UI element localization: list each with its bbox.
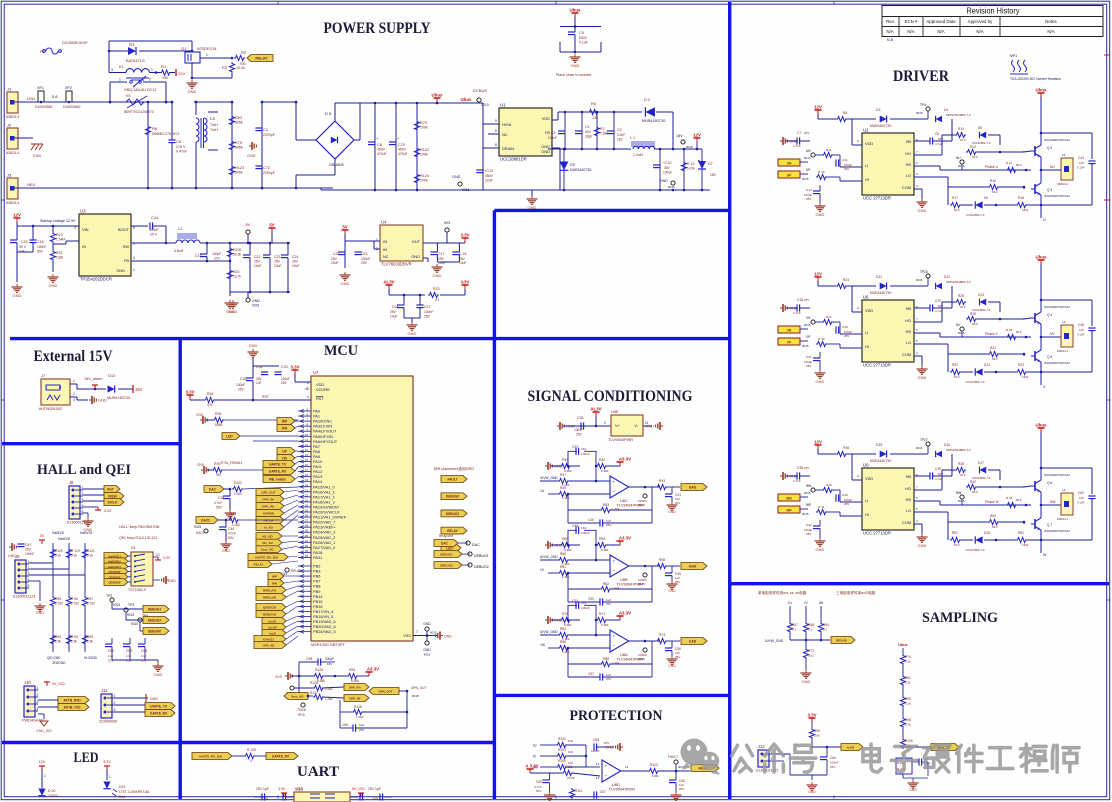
svg-text:GND: GND — [816, 379, 825, 384]
svg-text:SIGNAL CONDITIONING: SIGNAL CONDITIONING — [528, 388, 693, 405]
svg-text:160k: 160k — [1022, 208, 1029, 212]
svg-text:16V: 16V — [1079, 496, 1084, 500]
svg-text:C67: C67 — [600, 790, 606, 794]
svg-text:806k: 806k — [215, 423, 223, 427]
svg-text:15V: 15V — [135, 387, 143, 392]
svg-text:100: 100 — [568, 750, 573, 754]
svg-text:UARTE_TX: UARTE_TX — [150, 705, 168, 709]
svg-text:GND: GND — [918, 208, 927, 213]
svg-text:NC: NC — [383, 254, 389, 259]
svg-text:11: 11 — [305, 438, 308, 442]
svg-text:63824-4: 63824-4 — [6, 201, 19, 205]
svg-text:4: 4 — [37, 707, 39, 711]
svg-text:XF2: XF2 — [65, 86, 72, 90]
svg-text:R96: R96 — [814, 729, 820, 733]
svg-text:R78: R78 — [562, 612, 568, 616]
svg-text:100nF: 100nF — [581, 606, 590, 610]
svg-text:U4: U4 — [381, 220, 387, 225]
svg-text:7mH: 7mH — [210, 123, 218, 127]
svg-text:C29: C29 — [935, 299, 941, 303]
svg-text:100nF: 100nF — [37, 245, 46, 249]
svg-text:TLV9064IPWR: TLV9064IPWR — [608, 438, 633, 442]
svg-text:R62: R62 — [603, 582, 609, 586]
svg-text:1: 1 — [119, 78, 121, 82]
svg-text:C21: C21 — [361, 252, 367, 256]
svg-text:OPN_OUT: OPN_OUT — [379, 690, 393, 694]
svg-text:R68: R68 — [808, 623, 814, 627]
svg-text:DAC2: DAC2 — [201, 519, 210, 523]
svg-text:GND: GND — [408, 331, 417, 336]
svg-text:UVA_AD: UVA_AD — [263, 644, 275, 648]
svg-text:C50: C50 — [588, 597, 594, 601]
svg-text:450V: 450V — [377, 148, 386, 152]
svg-text:DHELd42: DHELd42 — [263, 596, 277, 600]
svg-text:0.1: 0.1 — [792, 628, 797, 632]
svg-text:WN: WN — [786, 497, 792, 501]
svg-text:R61: R61 — [560, 565, 566, 569]
svg-text:GND: GND — [116, 268, 125, 273]
svg-text:NW: NW — [956, 491, 961, 495]
svg-text:1: 1 — [114, 694, 116, 698]
svg-text:D12: D12 — [944, 275, 950, 279]
svg-text:100k: 100k — [652, 774, 659, 778]
svg-text:R27: R27 — [826, 315, 832, 319]
svg-text:J9: J9 — [15, 554, 20, 559]
svg-text:GND: GND — [36, 611, 45, 615]
svg-text:JEI2GND: JEI2GND — [52, 661, 66, 665]
svg-text:1N4148W-7-F: 1N4148W-7-F — [966, 380, 985, 384]
svg-text:C27: C27 — [424, 305, 430, 309]
svg-text:R SL_REMA1: R SL_REMA1 — [221, 461, 242, 465]
svg-text:R11: R11 — [826, 148, 832, 152]
svg-text:9015: 9015 — [298, 713, 305, 717]
svg-text:D 2: D 2 — [644, 97, 651, 102]
svg-text:63824-4: 63824-4 — [6, 115, 19, 119]
svg-text:NT0DP,215: NT0DP,215 — [197, 47, 216, 51]
svg-text:R34: R34 — [207, 392, 213, 396]
svg-text:R67: R67 — [792, 623, 798, 627]
svg-text:60.0: 60.0 — [954, 208, 960, 212]
svg-text:ILAD: ILAD — [847, 746, 855, 750]
svg-text:C17: C17 — [438, 252, 444, 256]
svg-text:SW: SW — [123, 244, 130, 249]
svg-text:450V: 450V — [485, 174, 494, 178]
svg-text:R17: R17 — [952, 196, 958, 200]
svg-text:L 1: L 1 — [630, 136, 635, 140]
svg-text:VDD: VDD — [865, 476, 873, 481]
svg-text:R66: R66 — [87, 635, 93, 639]
svg-text:C 18: C 18 — [459, 252, 466, 256]
svg-text:5: 5 — [28, 584, 30, 588]
svg-text:NU_AD: NU_AD — [262, 541, 273, 545]
svg-text:TDA-020250 MO Inverter Heatsin: TDA-020250 MO Inverter Heatsink — [1010, 77, 1061, 81]
svg-text:GND: GND — [918, 375, 927, 380]
svg-text:1N4148W-7-F: 1N4148W-7-F — [966, 548, 985, 552]
svg-text:60.0: 60.0 — [960, 473, 966, 477]
svg-text:OPA_IN+: OPA_IN+ — [349, 686, 362, 690]
svg-text:R63: R63 — [235, 116, 242, 120]
svg-text:DAC: DAC — [441, 542, 449, 546]
svg-text:32: 32 — [305, 544, 309, 548]
svg-text:2.10k: 2.10k — [87, 602, 95, 606]
svg-text:6.98k: 6.98k — [601, 469, 609, 473]
svg-text:UARTE_RX: UARTE_RX — [269, 470, 287, 474]
svg-text:35V: 35V — [664, 166, 671, 170]
svg-text:4.7uF: 4.7uF — [935, 477, 943, 481]
svg-text:R39: R39 — [214, 462, 220, 466]
svg-text:LI: LI — [865, 163, 868, 168]
svg-text:Hall2VD: Hall2VD — [58, 537, 71, 541]
svg-text:14: 14 — [625, 765, 629, 769]
svg-text:3: 3 — [37, 700, 39, 704]
svg-text:AKTB_RXD: AKTB_RXD — [63, 699, 81, 703]
svg-text:PB24/VAD_5: PB24/VAD_5 — [313, 629, 336, 634]
svg-text:TS71083-9: TS71083-9 — [128, 588, 146, 592]
svg-text:Ubus: Ubus — [570, 8, 582, 13]
svg-text:63824-4: 63824-4 — [6, 151, 19, 155]
svg-text:100pF: 100pF — [325, 657, 334, 661]
svg-text:14.3k: 14.3k — [687, 167, 695, 171]
svg-text:UP: UP — [282, 450, 287, 454]
svg-text:C4: C4 — [263, 128, 268, 132]
svg-text:25V: 25V — [424, 315, 431, 319]
svg-text:AKTB_TXD: AKTB_TXD — [63, 706, 81, 710]
svg-text:GND: GND — [411, 254, 420, 259]
svg-text:UCC 27713DR: UCC 27713DR — [863, 531, 891, 536]
svg-text:MURA160T3G: MURA160T3G — [107, 396, 131, 400]
svg-text:C58: C58 — [342, 723, 348, 727]
svg-text:GND: GND — [660, 179, 668, 183]
svg-text:Phase U: Phase U — [985, 165, 999, 169]
svg-text:POWER SUPPLY: POWER SUPPLY — [324, 20, 431, 37]
svg-text:100nF: 100nF — [581, 452, 590, 456]
svg-text:10.0k: 10.0k — [236, 66, 245, 70]
svg-text:LED: LED — [446, 546, 453, 550]
svg-text:25V: 25V — [281, 381, 288, 385]
svg-text:MB_enable: MB_enable — [269, 478, 286, 482]
svg-text:GND: GND — [423, 622, 431, 626]
svg-text:806k: 806k — [235, 121, 243, 125]
svg-text:25V: 25V — [126, 659, 132, 663]
svg-text:W: W — [1043, 553, 1047, 557]
svg-text:R102: R102 — [234, 481, 242, 485]
svg-text:GND: GND — [168, 579, 176, 583]
svg-text:33: 33 — [305, 549, 309, 553]
svg-text:DEBUG2: DEBUG2 — [440, 564, 453, 568]
svg-text:1uF: 1uF — [359, 723, 364, 727]
svg-text:R47: R47 — [560, 473, 566, 477]
svg-text:C24: C24 — [292, 255, 298, 259]
svg-text:UN: UN — [806, 149, 811, 153]
svg-text:R40: R40 — [826, 483, 832, 487]
svg-text:R6: R6 — [843, 111, 847, 115]
svg-text:GND: GND — [341, 281, 350, 286]
svg-text:3: 3 — [111, 68, 113, 72]
svg-text:J11: J11 — [101, 688, 108, 693]
svg-text:HO: HO — [905, 151, 911, 156]
svg-text:60.0: 60.0 — [954, 375, 960, 379]
svg-text:R 15: R 15 — [818, 170, 825, 174]
svg-text:R58: R58 — [659, 558, 665, 562]
svg-text:Startup voltage 12.9V: Startup voltage 12.9V — [40, 219, 76, 223]
svg-text:GND: GND — [196, 413, 204, 417]
svg-text:1: 1 — [133, 268, 135, 272]
svg-text:R90: R90 — [905, 697, 911, 701]
svg-text:69.0: 69.0 — [992, 190, 998, 194]
svg-text:100k: 100k — [420, 179, 428, 183]
svg-text:4.7uF: 4.7uF — [935, 142, 943, 146]
svg-text:TGND: TGND — [297, 708, 307, 712]
svg-text:XF1: XF1 — [37, 86, 44, 90]
svg-text:LIN1: LIN1 — [27, 96, 36, 101]
svg-text:2200pF: 2200pF — [263, 171, 275, 175]
svg-text:R19: R19 — [56, 233, 63, 237]
svg-text:Q 3: Q 3 — [1047, 188, 1052, 192]
svg-text:R124: R124 — [420, 174, 429, 178]
svg-text:C53: C53 — [126, 649, 132, 653]
svg-text:N/A: N/A — [886, 29, 893, 34]
svg-text:GND: GND — [918, 543, 927, 548]
svg-text:R121: R121 — [87, 549, 95, 553]
svg-text:Ubus: Ubus — [898, 643, 908, 647]
svg-text:R106: R106 — [905, 739, 913, 743]
svg-text:HI: HI — [865, 344, 869, 349]
svg-text:C70: C70 — [398, 143, 405, 147]
svg-text:50V: 50V — [585, 130, 592, 134]
svg-text:C42: C42 — [806, 523, 812, 527]
svg-text:12V: 12V — [814, 105, 822, 110]
svg-text:R73: R73 — [659, 633, 665, 637]
svg-text:9015: 9015 — [686, 145, 693, 149]
svg-text:25V: 25V — [804, 298, 809, 302]
svg-text:2.10k: 2.10k — [55, 602, 63, 606]
svg-text:R 29: R 29 — [1006, 328, 1013, 332]
svg-text:三电阻采样时用oct2电路: 三电阻采样时用oct2电路 — [836, 590, 876, 595]
svg-text:100: 100 — [568, 739, 573, 743]
svg-text:100nF: 100nF — [830, 761, 839, 765]
svg-text:Place close to inverter: Place close to inverter — [556, 73, 592, 77]
svg-text:29: 29 — [305, 529, 309, 533]
svg-text:R123: R123 — [235, 166, 244, 170]
svg-text:5V: 5V — [269, 223, 274, 228]
svg-text:External 15V: External 15V — [34, 348, 114, 365]
svg-text:6.98k: 6.98k — [317, 679, 325, 683]
svg-text:100nF: 100nF — [25, 552, 34, 556]
svg-text:R36: R36 — [843, 446, 849, 450]
svg-text:2: 2 — [73, 392, 75, 396]
svg-text:5V: 5V — [342, 225, 347, 230]
svg-text:GND: GND — [247, 154, 256, 158]
svg-text:10: 10 — [305, 433, 309, 437]
svg-text:Revision History: Revision History — [967, 6, 1021, 16]
svg-text:21.0k: 21.0k — [567, 776, 575, 780]
svg-text:RELAY: RELAY — [254, 563, 264, 567]
svg-text:TPS54202DDCR: TPS54202DDCR — [80, 277, 112, 282]
svg-text:MMSZ5248BS-7-F: MMSZ5248BS-7-F — [946, 113, 971, 117]
svg-text:LTST-C190KRKT-6A: LTST-C190KRKT-6A — [119, 790, 150, 794]
svg-text:16V: 16V — [581, 526, 587, 530]
svg-text:R33: R33 — [1018, 363, 1024, 367]
svg-text:HB: HB — [906, 474, 912, 479]
svg-text:R70: R70 — [420, 121, 427, 125]
svg-text:Approved Date: Approved Date — [926, 19, 956, 24]
svg-text:R21: R21 — [56, 251, 63, 255]
svg-text:69.0: 69.0 — [972, 155, 978, 159]
svg-text:18V: 18V — [710, 173, 717, 177]
svg-text:GND: GND — [150, 697, 158, 701]
svg-text:Iac3I: Iac3I — [269, 632, 276, 636]
svg-text:0.1uF: 0.1uF — [1077, 333, 1085, 337]
svg-text:Ubus: Ubus — [1036, 255, 1048, 260]
svg-text:WP: WP — [282, 420, 288, 424]
svg-text:C54: C54 — [141, 649, 147, 653]
svg-text:25V: 25V — [274, 260, 281, 264]
svg-text:R3: R3 — [222, 65, 228, 70]
svg-text:+: + — [613, 559, 616, 564]
svg-text:R119: R119 — [55, 549, 63, 553]
svg-text:UARTE_TX: UARTE_TX — [269, 463, 287, 467]
svg-text:IN: IN — [383, 247, 387, 252]
svg-text:3: 3 — [114, 708, 116, 712]
svg-text:C1: C1 — [585, 125, 590, 129]
svg-text:Hall4VD: Hall4VD — [52, 531, 65, 535]
svg-text:10uF: 10uF — [459, 261, 467, 265]
svg-text:OPA_IN+: OPA_IN+ — [262, 505, 275, 509]
svg-text:R126: R126 — [310, 681, 318, 685]
svg-text:C51: C51 — [572, 599, 578, 603]
svg-text:Phase V: Phase V — [985, 332, 999, 336]
svg-text:60.0: 60.0 — [960, 138, 966, 142]
svg-text:GND: GND — [668, 664, 676, 668]
svg-text:69.0: 69.0 — [972, 322, 978, 326]
svg-text:Q 5: Q 5 — [1047, 355, 1052, 359]
svg-text:V+: V+ — [615, 423, 621, 428]
svg-text:12: 12 — [305, 443, 309, 447]
svg-text:D17: D17 — [978, 461, 984, 465]
svg-text:25V: 25V — [390, 310, 397, 314]
svg-text:GND: GND — [816, 547, 825, 552]
svg-text:IKA10N60T6XKSA2: IKA10N60T6XKSA2 — [1044, 473, 1070, 477]
svg-text:4.7nF: 4.7nF — [228, 532, 236, 536]
svg-text:D22: D22 — [119, 785, 125, 789]
svg-text:C43: C43 — [1078, 156, 1084, 160]
svg-text:GND: GND — [668, 510, 676, 514]
svg-text:10uF: 10uF — [390, 315, 398, 319]
svg-text:GND: GND — [452, 175, 461, 179]
svg-text:9015: 9015 — [802, 344, 809, 348]
svg-text:N-B: N-B — [887, 38, 894, 42]
svg-text:450V: 450V — [398, 148, 407, 152]
svg-text:1.90k: 1.90k — [562, 496, 570, 500]
svg-text:Q 4: Q 4 — [1047, 313, 1052, 317]
svg-text:DEBUG1: DEBUG1 — [474, 554, 489, 558]
svg-text:IcAD: IcAD — [689, 640, 697, 644]
svg-text:SVPWD: SVPWD — [263, 512, 275, 516]
svg-text:3.3V: 3.3V — [185, 390, 194, 395]
svg-text:N/A: N/A — [937, 29, 944, 34]
svg-text:R105: R105 — [558, 759, 566, 763]
svg-text:R 13: R 13 — [687, 162, 694, 166]
svg-text:RST: RST — [107, 488, 115, 492]
svg-text:R22: R22 — [233, 270, 239, 274]
svg-text:R45: R45 — [562, 458, 568, 462]
svg-text:1.54M: 1.54M — [56, 238, 65, 242]
svg-text:0.1: 0.1 — [808, 628, 813, 632]
svg-text:26: 26 — [305, 514, 309, 518]
svg-text:16V: 16V — [327, 662, 332, 666]
svg-text:−: − — [613, 489, 616, 494]
svg-text:20: 20 — [305, 483, 309, 487]
svg-text:5.1k: 5.1k — [87, 554, 93, 558]
svg-text:R103: R103 — [558, 748, 566, 752]
svg-text:R 44: R 44 — [1006, 496, 1013, 500]
svg-text:VP: VP — [806, 335, 810, 339]
svg-text:806k: 806k — [235, 146, 243, 150]
svg-text:IUVW_GND: IUVW_GND — [540, 630, 558, 634]
svg-text:1: 1 — [37, 686, 39, 690]
svg-text:2.2k: 2.2k — [905, 660, 911, 664]
svg-text:C34: C34 — [240, 377, 247, 381]
svg-text:GBU808: GBU808 — [329, 163, 344, 167]
svg-text:D10: D10 — [108, 373, 116, 378]
svg-text:R 120: R 120 — [71, 549, 80, 553]
svg-text:7mH: 7mH — [210, 128, 218, 132]
svg-text:HALL: keep R64,R65,R66: HALL: keep R64,R65,R66 — [119, 525, 160, 529]
svg-text:MMSZ5248BS-7-F: MMSZ5248BS-7-F — [946, 280, 971, 284]
svg-text:TP20: TP20 — [920, 270, 928, 274]
svg-text:R2: R2 — [241, 50, 247, 55]
svg-text:A3.3V: A3.3V — [619, 611, 631, 616]
svg-text:MURA160T3G: MURA160T3G — [570, 168, 592, 172]
svg-text:16V: 16V — [581, 447, 587, 451]
svg-text:5.1k: 5.1k — [55, 554, 61, 558]
svg-text:80.6k: 80.6k — [233, 253, 241, 257]
svg-text:HS: HS — [906, 329, 912, 334]
svg-text:C69: C69 — [372, 797, 378, 801]
svg-text:K5: K5 — [126, 94, 131, 98]
svg-text:U3: U3 — [80, 209, 86, 214]
svg-text:IKA20N60T6XKSA2: IKA20N60T6XKSA2 — [1044, 529, 1070, 533]
svg-text:25V: 25V — [108, 659, 114, 663]
svg-text:LED: LED — [74, 750, 99, 766]
svg-text:C23: C23 — [274, 255, 280, 259]
svg-text:R51: R51 — [952, 531, 958, 535]
svg-text:VDD: VDD — [865, 308, 873, 313]
svg-text:PA31: PA31 — [313, 555, 322, 560]
svg-text:6.98k: 6.98k — [351, 679, 359, 683]
svg-text:R60: R60 — [560, 552, 566, 556]
svg-text:R112: R112 — [575, 789, 583, 793]
svg-text:33pF: 33pF — [585, 135, 593, 139]
svg-text:+C10: +C10 — [663, 161, 672, 165]
svg-text:69.0: 69.0 — [992, 357, 998, 361]
svg-text:25: 25 — [305, 509, 309, 513]
svg-text:GND: GND — [816, 212, 825, 217]
svg-text:1: 1 — [206, 53, 208, 57]
svg-text:单电阻采样时用oct, ss, ss电路: 单电阻采样时用oct, ss, ss电路 — [758, 590, 807, 595]
svg-text:A 3.3V: A 3.3V — [525, 764, 538, 769]
svg-text:S1: S1 — [131, 545, 137, 550]
svg-text:0.01: 0.01 — [808, 654, 814, 658]
svg-text:GND: GND — [249, 344, 258, 348]
svg-text:133k: 133k — [56, 256, 64, 260]
svg-text:U6: U6 — [863, 295, 869, 300]
svg-text:VN: VN — [806, 316, 811, 320]
svg-text:SVCLK: SVCLK — [263, 519, 274, 523]
svg-text:R31: R31 — [990, 346, 996, 350]
svg-text:25V: 25V — [292, 260, 299, 264]
svg-text:13: 13 — [596, 776, 600, 780]
